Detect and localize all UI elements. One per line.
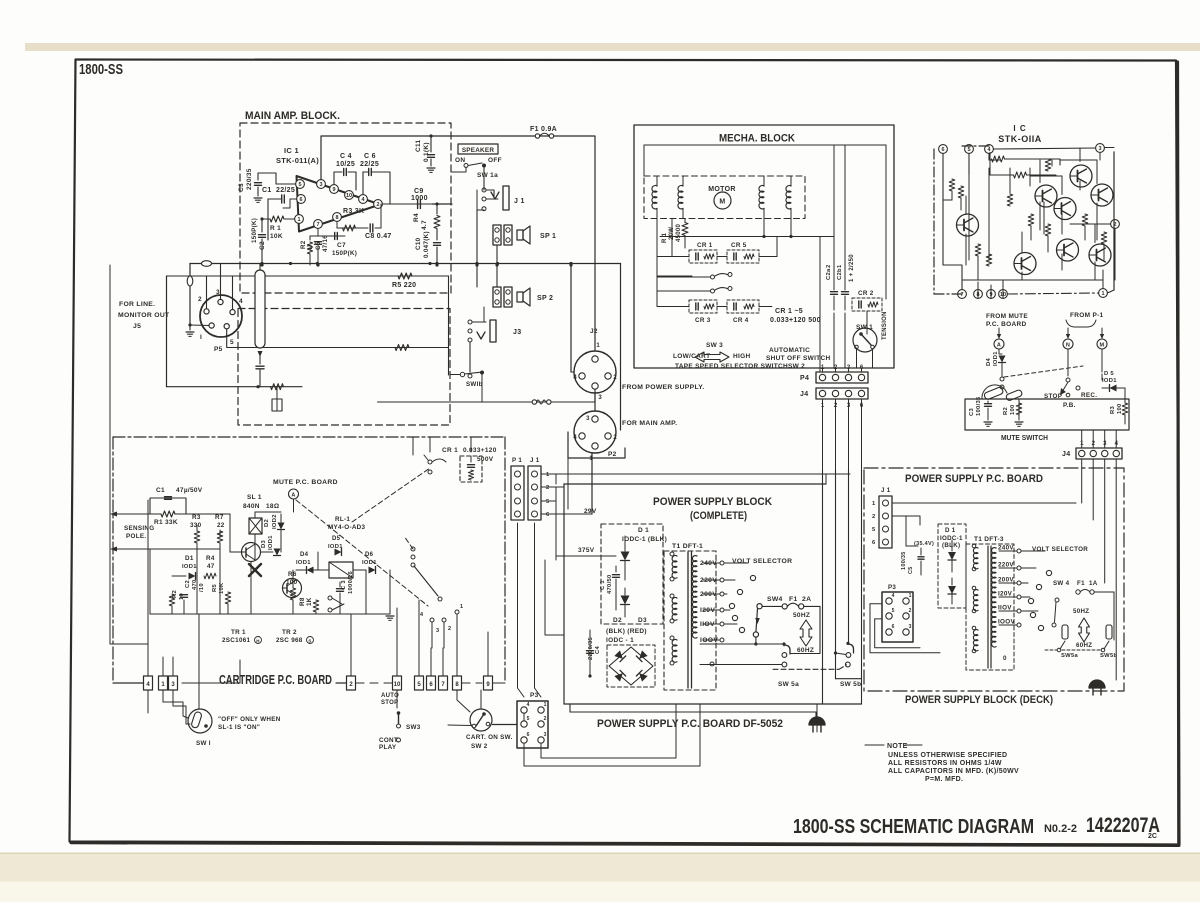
svg-text:TENSION: TENSION <box>882 311 888 340</box>
svg-text:R 1: R 1 <box>270 225 281 232</box>
svg-text:1: 1 <box>544 702 547 708</box>
svg-text:T1 DFT-1: T1 DFT-1 <box>672 543 703 550</box>
svg-text:SW 2: SW 2 <box>788 363 805 370</box>
svg-text:IIOV: IIOV <box>998 605 1012 612</box>
svg-text:UNLESS OTHERWISE SPECIFIED: UNLESS OTHERWISE SPECIFIED <box>888 752 1007 759</box>
svg-text:150P(K): 150P(K) <box>251 218 258 243</box>
svg-text:2: 2 <box>546 485 550 491</box>
svg-text:100/35: 100/35 <box>901 551 907 570</box>
svg-text:A: A <box>291 493 295 499</box>
svg-text:2: 2 <box>198 296 202 303</box>
svg-text:240V: 240V <box>998 545 1014 552</box>
svg-text:22/25: 22/25 <box>360 161 379 168</box>
svg-text:SW I: SW I <box>196 740 211 747</box>
svg-text:MAIN AMP. BLOCK.: MAIN AMP. BLOCK. <box>245 110 340 122</box>
svg-text:FROM P-1: FROM P-1 <box>1070 312 1104 319</box>
svg-text:5: 5 <box>892 608 895 614</box>
svg-text:R4: R4 <box>206 555 215 562</box>
svg-text:(COMPLETE): (COMPLETE) <box>690 510 747 522</box>
svg-text:POWER SUPPLY BLOCK (DECK): POWER SUPPLY BLOCK (DECK) <box>905 694 1053 706</box>
svg-text:1: 1 <box>297 217 300 223</box>
svg-text:3: 3 <box>1098 146 1101 152</box>
svg-text:SW 5a: SW 5a <box>778 681 799 688</box>
svg-text:0.033+120: 0.033+120 <box>463 447 497 454</box>
svg-text:FOR MAIN AMP.: FOR MAIN AMP. <box>622 420 677 427</box>
svg-text:5: 5 <box>872 527 876 533</box>
svg-text:2: 2 <box>448 626 451 632</box>
svg-text:1: 1 <box>872 501 876 507</box>
svg-text:P.C. BOARD: P.C. BOARD <box>986 321 1026 328</box>
svg-text:P5: P5 <box>214 346 223 353</box>
svg-text:1 + 2/250: 1 + 2/250 <box>849 254 855 282</box>
svg-text:D 1: D 1 <box>945 527 956 534</box>
svg-text:J4: J4 <box>1062 451 1070 458</box>
svg-text:F1 0.9A: F1 0.9A <box>530 126 557 133</box>
svg-text:ALL RESISTORS IN OHMS 1/4W: ALL RESISTORS IN OHMS 1/4W <box>888 760 1002 767</box>
svg-text:CR 3: CR 3 <box>695 317 711 324</box>
svg-text:R2: R2 <box>300 240 307 249</box>
svg-text:1K: 1K <box>306 597 313 606</box>
svg-text:J 1: J 1 <box>514 198 525 205</box>
svg-text:D1: D1 <box>185 555 194 562</box>
svg-text:R3 3K: R3 3K <box>343 208 364 215</box>
svg-text:3: 3 <box>586 416 590 422</box>
svg-text:C 1: C 1 <box>600 580 606 590</box>
svg-text:POLE.: POLE. <box>126 533 146 540</box>
svg-text:1000: 1000 <box>411 195 428 202</box>
svg-text:R7: R7 <box>215 514 224 521</box>
svg-text:200V: 200V <box>998 577 1014 584</box>
svg-text:TAPE SPEED SELECTOR SWITCH: TAPE SPEED SELECTOR SWITCH <box>675 363 788 370</box>
svg-text:2C: 2C <box>1148 833 1157 840</box>
svg-text:C8 0.47: C8 0.47 <box>365 233 392 240</box>
svg-text:2200/35: 2200/35 <box>588 636 594 660</box>
svg-text:M: M <box>1100 343 1105 349</box>
svg-text:2SC1061: 2SC1061 <box>222 637 251 644</box>
svg-text:M: M <box>719 199 725 206</box>
svg-text:J5: J5 <box>133 323 141 330</box>
svg-text:4: 4 <box>239 298 243 305</box>
svg-text:5: 5 <box>527 716 530 722</box>
svg-text:SENSING: SENSING <box>124 525 154 532</box>
svg-text:C5: C5 <box>908 566 914 574</box>
svg-text:D3: D3 <box>261 540 267 548</box>
svg-text:3: 3 <box>909 624 912 630</box>
svg-text:10: 10 <box>179 593 185 600</box>
svg-text:10K: 10K <box>270 233 283 240</box>
svg-text:2: 2 <box>544 716 547 722</box>
svg-text:P=M. MFD.: P=M. MFD. <box>925 776 963 783</box>
svg-text:1800-SS: 1800-SS <box>79 62 123 78</box>
svg-text:47/16: 47/16 <box>322 235 329 252</box>
svg-text:HIGH: HIGH <box>733 353 750 360</box>
svg-text:SP 1: SP 1 <box>540 233 556 240</box>
svg-text:OFF: OFF <box>488 157 502 164</box>
svg-text:220V: 220V <box>998 562 1014 569</box>
svg-text:1: 1 <box>546 472 550 478</box>
svg-text:C 6: C 6 <box>364 153 376 160</box>
svg-text:I20V: I20V <box>998 591 1013 598</box>
svg-text:1000/16: 1000/16 <box>348 570 354 594</box>
svg-text:10: 10 <box>394 682 401 688</box>
svg-text:2SC 968: 2SC 968 <box>276 637 303 644</box>
svg-text:SPEAKER: SPEAKER <box>462 147 494 154</box>
svg-text:4: 4 <box>527 702 530 708</box>
svg-text:5: 5 <box>546 499 550 505</box>
svg-text:R5 220: R5 220 <box>392 282 416 289</box>
svg-text:1: 1 <box>1101 291 1104 297</box>
svg-text:50HZ: 50HZ <box>1073 608 1089 615</box>
svg-text:MECHA. BLOCK: MECHA. BLOCK <box>719 133 795 145</box>
svg-text:S: S <box>308 639 311 644</box>
svg-text:3: 3 <box>436 628 439 634</box>
svg-text:2A: 2A <box>802 596 811 603</box>
svg-text:CR 2: CR 2 <box>858 290 874 297</box>
svg-text:1800-SS SCHEMATIC DIAGRAM: 1800-SS SCHEMATIC DIAGRAM <box>793 816 1034 838</box>
svg-text:D2: D2 <box>613 617 622 624</box>
svg-text:ON: ON <box>455 157 465 164</box>
svg-text:FROM MUTE: FROM MUTE <box>986 313 1028 320</box>
svg-text:330: 330 <box>190 522 202 529</box>
svg-text:CR 4: CR 4 <box>733 317 749 324</box>
svg-text:P 1: P 1 <box>512 457 522 464</box>
svg-text:6: 6 <box>299 197 302 203</box>
svg-text:C2a: C2a <box>826 268 832 280</box>
svg-text:H: H <box>256 639 260 644</box>
svg-text:R4: R4 <box>413 213 420 222</box>
svg-text:0.1(K): 0.1(K) <box>423 142 430 162</box>
svg-text:R1 33K: R1 33K <box>154 519 178 526</box>
svg-text:1A: 1A <box>1089 580 1098 587</box>
svg-text:D4: D4 <box>986 358 992 366</box>
svg-text:FROM POWER SUPPLY.: FROM POWER SUPPLY. <box>622 384 705 391</box>
svg-text:840N: 840N <box>243 503 260 510</box>
svg-text:FOR LINE.: FOR LINE. <box>119 301 155 308</box>
svg-text:60HZ: 60HZ <box>797 647 814 654</box>
svg-text:3: 3 <box>319 182 322 188</box>
svg-text:IOD1: IOD1 <box>296 560 311 566</box>
svg-text:CART. ON SW.: CART. ON SW. <box>466 734 513 741</box>
svg-text:SW4: SW4 <box>767 596 783 603</box>
svg-text:MUTE P.C. BOARD: MUTE P.C. BOARD <box>273 479 338 486</box>
svg-text:SW5a: SW5a <box>1061 653 1078 659</box>
svg-text:47µ/50V: 47µ/50V <box>176 487 203 494</box>
svg-text:C 4: C 4 <box>340 153 352 160</box>
svg-text:C2: C2 <box>185 580 191 588</box>
svg-text:N0.2-2: N0.2-2 <box>1044 823 1077 835</box>
svg-text:SP 2: SP 2 <box>537 295 553 302</box>
svg-text:10/25: 10/25 <box>336 161 355 168</box>
svg-text:POWER SUPPLY P.C. BOARD: POWER SUPPLY P.C. BOARD <box>905 473 1043 485</box>
svg-text:I C: I C <box>1013 124 1026 133</box>
svg-text:1: 1 <box>460 604 463 610</box>
svg-text:IC 1: IC 1 <box>284 146 299 155</box>
svg-text:P4: P4 <box>800 375 809 382</box>
svg-text:R8: R8 <box>299 597 306 606</box>
svg-text:2: 2 <box>872 514 876 520</box>
svg-text:VOLT SELECTOR: VOLT SELECTOR <box>1032 546 1088 553</box>
svg-text:R2: R2 <box>1003 407 1009 415</box>
svg-text:(BLK): (BLK) <box>942 542 960 549</box>
svg-text:C4: C4 <box>595 646 601 654</box>
svg-text:R3: R3 <box>1110 406 1116 414</box>
svg-text:D 5: D 5 <box>1104 371 1114 377</box>
svg-text:47: 47 <box>207 563 215 570</box>
svg-text:C7: C7 <box>337 242 346 249</box>
svg-text:R6: R6 <box>288 571 297 578</box>
svg-text:6: 6 <box>872 540 876 546</box>
svg-text:J 1: J 1 <box>881 487 891 494</box>
svg-text:J 1: J 1 <box>530 457 540 464</box>
svg-text:1: 1 <box>837 264 843 268</box>
svg-text:2: 2 <box>826 264 832 268</box>
svg-text:D3: D3 <box>638 617 647 624</box>
svg-text:CARTRIDGE P.C. BOARD: CARTRIDGE P.C. BOARD <box>219 672 332 687</box>
svg-text:P.B.: P.B. <box>1063 402 1076 409</box>
svg-text:220/35: 220/35 <box>246 168 253 190</box>
svg-text:ALL CAPACITORS IN MFD. (K)/: ALL CAPACITORS IN MFD. (K)/50WV <box>888 768 1019 775</box>
svg-text:0: 0 <box>1003 655 1007 662</box>
svg-text:CR 1: CR 1 <box>697 242 713 249</box>
svg-text:/10: /10 <box>199 583 205 592</box>
svg-text:VOLT SELECTOR: VOLT SELECTOR <box>732 558 792 565</box>
svg-text:TR 1: TR 1 <box>231 629 246 636</box>
svg-text:CONT.: CONT. <box>379 737 399 744</box>
svg-text:D2: D2 <box>264 519 270 527</box>
svg-text:SL-1 IS "ON": SL-1 IS "ON" <box>218 724 260 731</box>
svg-text:SW3: SW3 <box>406 724 421 731</box>
svg-text:P3: P3 <box>530 692 539 699</box>
svg-text:2: 2 <box>909 608 912 614</box>
svg-text:AUTO: AUTO <box>381 693 399 699</box>
svg-text:22/25: 22/25 <box>276 187 295 194</box>
svg-text:150P(K): 150P(K) <box>332 250 357 257</box>
svg-text:0.047(K): 0.047(K) <box>423 231 430 258</box>
svg-text:TR 2: TR 2 <box>282 629 297 636</box>
svg-text:SWIb: SWIb <box>466 381 483 388</box>
svg-text:7: 7 <box>316 222 319 228</box>
svg-text:2: 2 <box>376 202 379 208</box>
svg-text:3: 3 <box>216 289 220 296</box>
svg-text:F1: F1 <box>789 596 798 603</box>
svg-text:(BLK) (RED): (BLK) (RED) <box>606 628 647 635</box>
svg-text:CR 1 ~5: CR 1 ~5 <box>775 308 803 315</box>
svg-text:45000: 45000 <box>676 223 682 242</box>
svg-text:P2: P2 <box>608 451 617 458</box>
svg-text:C11: C11 <box>415 139 422 152</box>
svg-text:PLAY: PLAY <box>379 744 397 751</box>
svg-text:SW 1a: SW 1a <box>477 172 498 179</box>
svg-text:3: 3 <box>544 732 547 738</box>
svg-text:8: 8 <box>335 215 338 221</box>
svg-text:SL 1: SL 1 <box>247 494 262 501</box>
svg-text:P3: P3 <box>888 584 896 591</box>
svg-text:N: N <box>1066 343 1070 349</box>
svg-text:5: 5 <box>230 339 234 346</box>
svg-text:POWER SUPPLY P.C. BOARD DF: POWER SUPPLY P.C. BOARD DF-5052 <box>597 718 783 730</box>
svg-text:MUTE SWITCH: MUTE SWITCH <box>1001 435 1048 442</box>
svg-text:SW5b: SW5b <box>1100 653 1117 659</box>
svg-text:6: 6 <box>527 732 530 738</box>
svg-text:9: 9 <box>332 187 335 193</box>
svg-text:T1 DFT-3: T1 DFT-3 <box>974 536 1004 543</box>
svg-text:IOD1: IOD1 <box>182 564 197 570</box>
svg-text:C3: C3 <box>969 408 975 416</box>
svg-text:"OFF" ONLY WHEN: "OFF" ONLY WHEN <box>218 716 281 723</box>
svg-text:IOD1: IOD1 <box>1102 378 1117 384</box>
svg-text:IODC-1 (BLK): IODC-1 (BLK) <box>622 536 667 543</box>
svg-text:R 1: R 1 <box>662 232 668 243</box>
svg-text:0.033+120 500: 0.033+120 500 <box>770 317 821 324</box>
svg-text:C1: C1 <box>156 487 165 494</box>
svg-text:AUTOMATIC: AUTOMATIC <box>769 347 810 354</box>
svg-text:STK-OIIA: STK-OIIA <box>998 134 1042 144</box>
svg-text:SW 2: SW 2 <box>471 743 488 750</box>
svg-text:4.7: 4.7 <box>421 220 428 230</box>
svg-text:R3: R3 <box>192 514 201 521</box>
svg-text:J3: J3 <box>513 329 521 336</box>
svg-text:POWER SUPPLY BLOCK: POWER SUPPLY BLOCK <box>653 496 772 508</box>
svg-text:100: 100 <box>1010 404 1016 415</box>
svg-text:C9: C9 <box>414 188 424 195</box>
svg-text:R5: R5 <box>212 584 218 592</box>
svg-text:J4: J4 <box>800 391 808 398</box>
svg-text:5: 5 <box>298 182 301 188</box>
svg-text:SHUT OFF SWITCH: SHUT OFF SWITCH <box>766 355 830 362</box>
svg-text:IODC - 1: IODC - 1 <box>606 637 634 644</box>
svg-text:C3: C3 <box>238 183 245 192</box>
svg-text:7: 7 <box>960 292 963 298</box>
svg-text:NOTE: NOTE <box>887 743 908 750</box>
svg-text:IOD1: IOD1 <box>268 535 274 550</box>
svg-text:50HZ: 50HZ <box>793 612 810 619</box>
svg-text:6: 6 <box>546 512 550 518</box>
svg-text:CR 1: CR 1 <box>442 447 458 454</box>
svg-text:22: 22 <box>217 522 225 529</box>
svg-text:IOD1: IOD1 <box>993 351 999 366</box>
svg-text:100: 100 <box>1117 403 1123 414</box>
svg-text:STOP: STOP <box>381 700 398 706</box>
svg-text:SW 5b: SW 5b <box>840 681 861 688</box>
svg-text:MONITOR OUT: MONITOR OUT <box>118 312 170 319</box>
svg-text:A: A <box>997 343 1001 349</box>
svg-text:IOOV: IOOV <box>998 619 1015 626</box>
svg-text:D4: D4 <box>300 552 309 558</box>
svg-text:D6: D6 <box>365 552 374 558</box>
svg-text:STK-011(A): STK-011(A) <box>276 156 319 165</box>
svg-text:375V: 375V <box>578 547 595 554</box>
svg-text:60HZ: 60HZ <box>1076 642 1092 649</box>
svg-text:5: 5 <box>967 147 970 153</box>
svg-text:D 1: D 1 <box>638 527 649 534</box>
svg-text:C2b: C2b <box>837 268 843 280</box>
svg-text:6: 6 <box>892 624 895 630</box>
svg-text:REC.: REC. <box>1081 392 1097 399</box>
svg-text:I: I <box>200 334 202 341</box>
svg-text:10: 10 <box>346 193 352 199</box>
svg-text:18Ω: 18Ω <box>266 503 279 510</box>
svg-text:F1: F1 <box>1077 580 1085 587</box>
svg-text:6: 6 <box>941 147 944 153</box>
svg-text:500V: 500V <box>477 456 494 463</box>
svg-text:RL-1: RL-1 <box>335 516 350 523</box>
svg-text:CR 5: CR 5 <box>731 242 747 249</box>
svg-text:SW 4: SW 4 <box>1053 580 1070 587</box>
svg-text:C10: C10 <box>415 237 422 250</box>
svg-text:J2: J2 <box>590 328 598 335</box>
svg-text:D5: D5 <box>332 536 341 542</box>
svg-text:IOD2: IOD2 <box>272 514 278 529</box>
svg-text:4: 4 <box>892 593 895 599</box>
svg-text:C1: C1 <box>262 187 272 194</box>
svg-text:1: 1 <box>909 593 912 599</box>
svg-text:SW 3: SW 3 <box>706 342 723 349</box>
